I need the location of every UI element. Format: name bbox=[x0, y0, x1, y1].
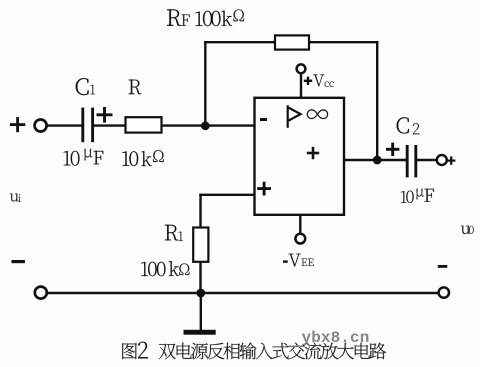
terminal output u0 bbox=[437, 155, 447, 165]
wire bottom node to ground bbox=[200, 293, 202, 330]
wire feedback right vertical bbox=[376, 42, 378, 160]
label +Vcc bbox=[304, 77, 312, 85]
label R bbox=[129, 80, 142, 95]
label R1 bbox=[165, 225, 183, 241]
wire op-amp output to C2 bbox=[344, 159, 407, 161]
op-amp non-inverting input marker + bbox=[257, 182, 271, 196]
capacitor C2 bbox=[407, 145, 416, 177]
wire non-inverting down to R1 bbox=[199, 195, 201, 228]
op-amp inverting input marker - bbox=[260, 118, 267, 121]
label polarity + at input bbox=[10, 117, 25, 132]
capacitor C1 bbox=[83, 108, 93, 143]
label minus at output bbox=[438, 265, 448, 268]
resistor R bbox=[126, 117, 162, 132]
capacitor C2 polarity + bbox=[386, 143, 399, 156]
wire C1 to R bbox=[94, 124, 126, 126]
terminal bottom left bbox=[35, 287, 47, 299]
wire +Vcc supply bbox=[300, 73, 302, 98]
caption text 双电源反相输入式交流放大电路 bbox=[159, 343, 386, 360]
wire bottom rail bbox=[47, 292, 439, 294]
node B output junction bbox=[373, 156, 382, 165]
wire R1 to bottom rail bbox=[199, 262, 201, 293]
label 100 kOhm for R1 bbox=[141, 261, 189, 276]
op-amp output polarity + bbox=[307, 147, 319, 159]
wire feedback top horizontal bbox=[205, 41, 377, 43]
wire C2 to output terminal bbox=[417, 159, 437, 161]
svg-text:ybx8.cn: ybx8.cn bbox=[302, 329, 370, 347]
node C ground rail junction bbox=[196, 289, 205, 298]
ground bbox=[184, 330, 216, 335]
wire input terminal to C1 bbox=[47, 124, 82, 126]
resistor R1 bbox=[193, 228, 208, 262]
resistor RF bbox=[275, 35, 309, 49]
label 10 uF for C1 bbox=[64, 149, 104, 166]
terminal -VEE bbox=[295, 234, 305, 244]
wire -VEE supply bbox=[299, 215, 301, 234]
label 10 kOhm for R bbox=[122, 150, 163, 166]
op-amp gain symbol triangle bbox=[288, 105, 301, 128]
label RF 100 kOhm bbox=[167, 9, 244, 26]
capacitor C1 polarity + bbox=[97, 107, 113, 123]
caption figure label 图2 bbox=[122, 342, 148, 359]
wire feedback left vertical bbox=[204, 42, 206, 125]
node A inverting input junction bbox=[201, 121, 210, 130]
terminal input ui bbox=[35, 120, 47, 132]
label C1 bbox=[76, 78, 95, 95]
terminal bottom right bbox=[439, 287, 449, 297]
label u0 bbox=[461, 226, 474, 234]
label ui bbox=[10, 193, 21, 201]
label -VEE bbox=[283, 260, 288, 262]
terminal +Vcc bbox=[297, 64, 306, 73]
label C2 bbox=[397, 117, 420, 134]
label minus at input bbox=[12, 260, 26, 263]
wire non-inverting input horizontal bbox=[201, 194, 255, 196]
label polarity + at output terminal bbox=[447, 156, 455, 164]
wire R to op-amp inverting input bbox=[162, 124, 255, 126]
op-amp U1 body bbox=[255, 98, 345, 215]
op-amp infinity gain label bbox=[307, 109, 328, 119]
label 10uF for C2 bbox=[401, 189, 434, 204]
